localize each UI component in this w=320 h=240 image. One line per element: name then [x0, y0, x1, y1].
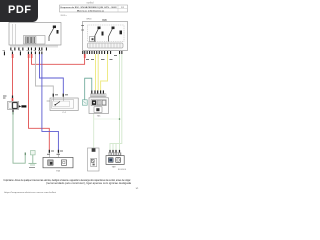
svg-text:2009->: 2009->: [61, 14, 68, 17]
svg-text:Esquema de BSI : ENGATE/REBOQU: Esquema de BSI : ENGATE/REBOQUE GPS - 30…: [61, 6, 118, 9]
svg-text:Berco eletronico: Berco eletronico: [77, 10, 105, 13]
svg-text:https://esquemas-eletricos.car: https://esquemas-eletricos.carros.com.br…: [4, 191, 57, 194]
svg-text:Importante: Antes de qualquer: Importante: Antes de qualquer intervenca…: [4, 179, 131, 182]
svg-text:B00KB0E: B00KB0E: [118, 169, 127, 171]
svg-text:(recomendado pelo construtor),: (recomendado pelo construtor), ligar ape…: [46, 182, 132, 185]
svg-text:scribd: scribd: [87, 1, 94, 5]
